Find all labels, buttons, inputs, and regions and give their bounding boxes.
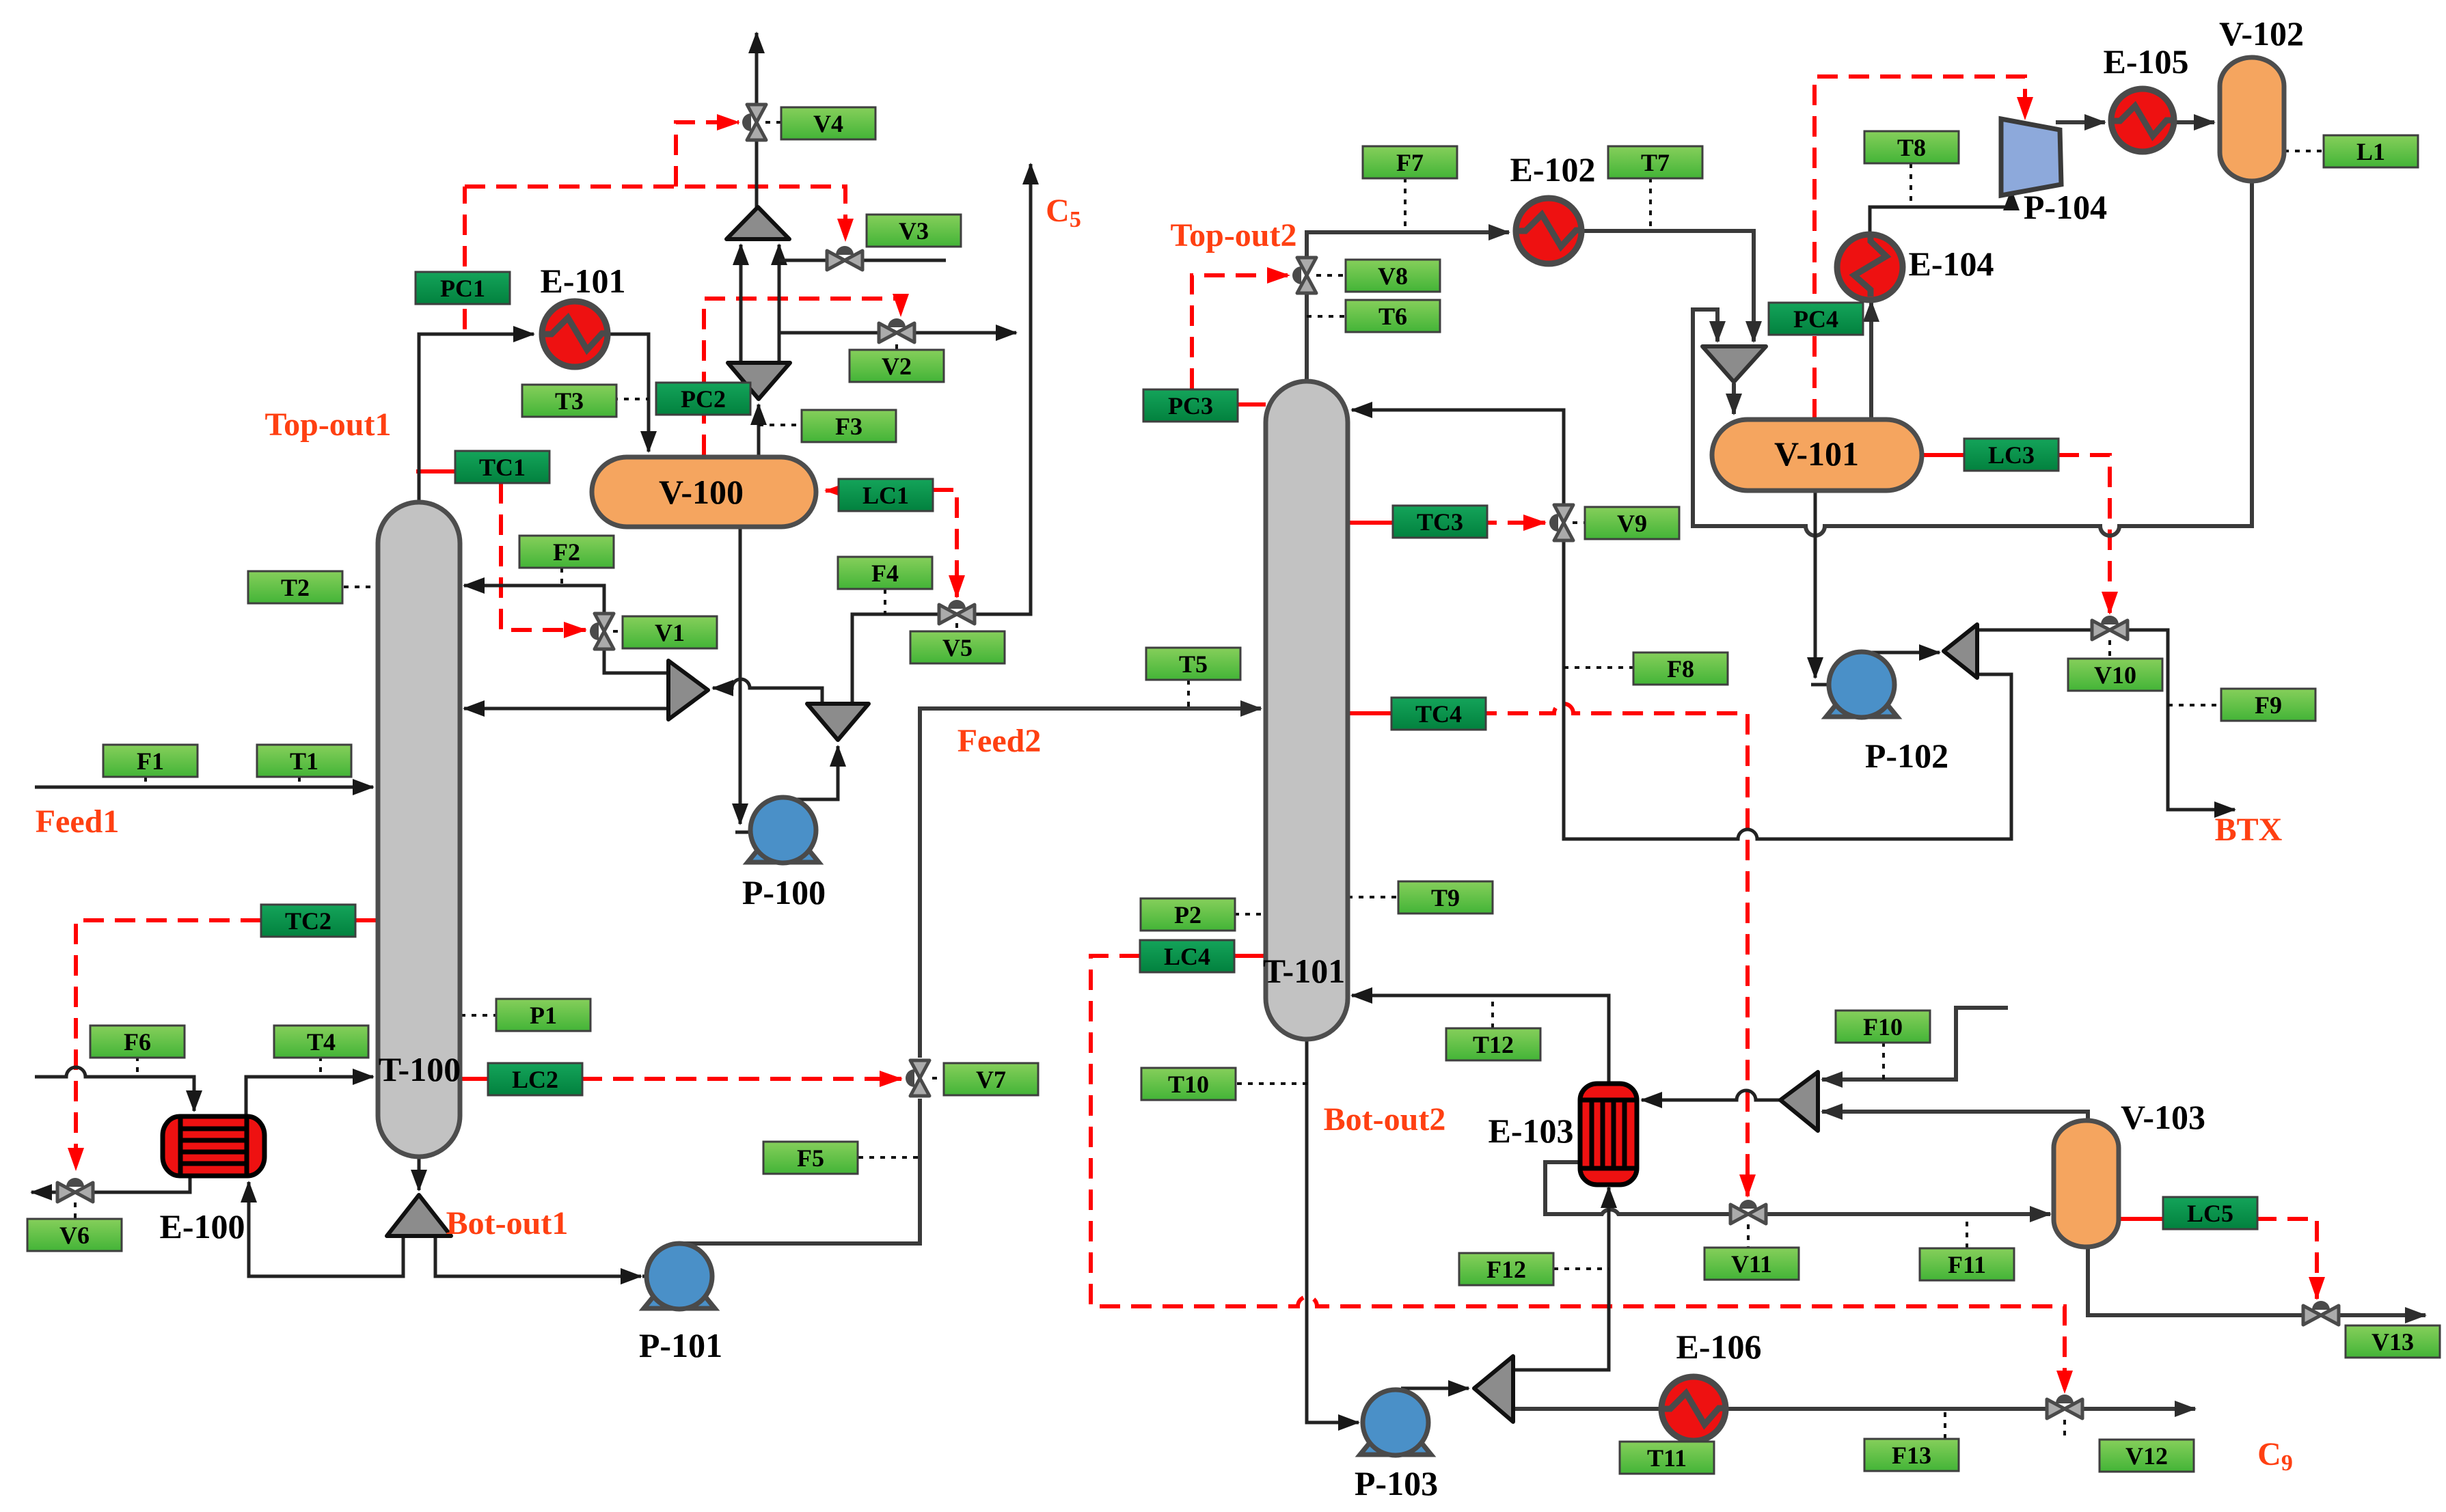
svg-text:V10: V10 <box>2094 661 2136 689</box>
tap T1 <box>298 777 301 787</box>
valve V5 <box>939 600 975 624</box>
box F13 <box>1864 1439 1959 1471</box>
svg-text:PC3: PC3 <box>1168 392 1213 420</box>
wire F10 makeup feed <box>1822 1008 2008 1080</box>
pump P-100 <box>748 797 819 863</box>
svg-text:V9: V9 <box>1617 510 1647 537</box>
box LC2 <box>488 1063 582 1095</box>
wire bottoms splitter to E-100 <box>249 1182 403 1276</box>
tap T2 <box>333 586 378 588</box>
box V5 <box>910 631 1005 663</box>
box T1 <box>257 745 351 777</box>
wire mixer to V-101 <box>1732 383 1736 414</box>
signal TC4 to V11 <box>1476 704 1748 1196</box>
valve V12 <box>2047 1394 2082 1418</box>
box PC4 <box>1769 303 1863 335</box>
signal LC5 tap <box>2119 1217 2163 1221</box>
box V12 <box>2100 1440 2194 1472</box>
box F2 <box>519 536 614 568</box>
wire P-104 to E-105 <box>2056 120 2105 124</box>
svg-text:E-106: E-106 <box>1676 1328 1762 1366</box>
tap F6 <box>136 1056 139 1077</box>
box TC2 <box>261 905 355 937</box>
svg-text:F5: F5 <box>797 1144 824 1172</box>
box V2 <box>850 350 944 382</box>
wire P-103 discharge <box>1401 1387 1469 1390</box>
svg-text:T3: T3 <box>555 387 584 415</box>
svg-text:E-101: E-101 <box>541 262 626 300</box>
svg-text:P2: P2 <box>1174 901 1201 929</box>
svg-text:LC1: LC1 <box>862 482 909 509</box>
svg-text:P-103: P-103 <box>1355 1464 1438 1502</box>
signal LC2 to V7 <box>582 1077 901 1081</box>
wire reboiler feed to E-103 <box>1513 1187 1609 1370</box>
svg-text:Feed1: Feed1 <box>36 803 120 840</box>
svg-text:TC3: TC3 <box>1417 508 1463 536</box>
wire steam feed to E-100 <box>35 1067 194 1111</box>
junction big triangle above V-100 <box>726 207 789 239</box>
junction splitter below big triangle <box>728 363 790 399</box>
tap V8 <box>1316 274 1346 277</box>
svg-text:T5: T5 <box>1179 650 1208 678</box>
box F12 <box>1459 1253 1553 1285</box>
wire E-103 outlet to V11 <box>1545 1162 1730 1214</box>
tap P2 <box>1234 913 1266 916</box>
svg-text:F4: F4 <box>871 560 899 587</box>
tap F8 <box>1564 666 1633 669</box>
signal PC3 tap <box>1237 402 1266 407</box>
wire P-102 suction tick <box>1811 683 1863 687</box>
vessel V-100 <box>592 457 816 527</box>
svg-text:V11: V11 <box>1731 1250 1772 1278</box>
svg-text:LC4: LC4 <box>1164 943 1210 970</box>
svg-text:E-100: E-100 <box>160 1207 245 1246</box>
wire V12 to C9 product <box>2084 1407 2195 1411</box>
box T3 <box>522 385 616 417</box>
box P2 <box>1141 898 1235 931</box>
tap T10 <box>1226 1082 1307 1085</box>
svg-text:T-101: T-101 <box>1263 952 1345 990</box>
wire V-103 overhead recycle <box>1822 1112 2088 1122</box>
vessel V-103 <box>2054 1121 2119 1247</box>
wire E-105 to V-102 <box>2173 120 2214 124</box>
svg-text:F7: F7 <box>1396 149 1424 176</box>
wire Feed2 riser and feed to T-101 <box>920 709 1261 1058</box>
wire Top-out1 column to E-101 <box>419 334 534 504</box>
wire V-101 vapor to E-104 <box>1869 301 1873 420</box>
box F3 <box>802 410 896 442</box>
svg-text:V-101: V-101 <box>1774 435 1859 473</box>
box LC5 <box>2163 1197 2257 1229</box>
valve V10 <box>2092 616 2128 640</box>
svg-text:V-103: V-103 <box>2121 1098 2205 1136</box>
box V10 <box>2068 659 2162 691</box>
box LC3 <box>1964 439 2058 471</box>
column T-100 <box>378 502 460 1157</box>
wire E-101 to V-100 <box>608 334 649 452</box>
wire splitter left leg up to big triangle <box>739 245 743 363</box>
wire E-103 vapor return to T-101 <box>1352 995 1609 1084</box>
svg-text:T11: T11 <box>1647 1444 1687 1472</box>
signal TC2 to V6 <box>76 920 261 1170</box>
wire E-102 to mixer <box>1581 231 1754 342</box>
junction splitter at P-102 <box>1944 624 1977 678</box>
svg-text:V8: V8 <box>1378 262 1408 290</box>
column T-101 <box>1266 381 1348 1039</box>
box T5 <box>1146 648 1240 680</box>
wire E-106 to V12 <box>1724 1407 2046 1411</box>
valve V9 <box>1549 505 1573 540</box>
wire V1 to mixer <box>604 648 668 673</box>
svg-text:LC2: LC2 <box>512 1066 558 1093</box>
tap T9 <box>1348 896 1398 898</box>
signal LC4 to V12 <box>1091 956 2065 1392</box>
svg-text:F13: F13 <box>1892 1442 1931 1469</box>
wire vent through V4 to flare <box>755 33 759 208</box>
box T10 <box>1141 1068 1236 1100</box>
box TC4 <box>1391 698 1486 730</box>
box V3 <box>867 215 961 247</box>
valve V7 <box>906 1060 929 1096</box>
box F8 <box>1633 652 1728 685</box>
box V4 <box>781 107 875 139</box>
box PC2 <box>656 383 750 415</box>
signal LC4 tap <box>1234 954 1266 958</box>
pump P-103 <box>1360 1390 1431 1455</box>
box T6 <box>1346 300 1440 332</box>
signal LC5 to V13 <box>2256 1219 2317 1299</box>
valve V3 <box>827 246 862 270</box>
wire splitter recycle loop down <box>1352 410 2011 839</box>
tap T3 <box>613 398 649 400</box>
svg-text:V13: V13 <box>2372 1328 2414 1356</box>
svg-text:F2: F2 <box>553 538 580 566</box>
wire V10 to BTX product <box>2128 630 2235 810</box>
box F11 <box>1920 1248 2014 1280</box>
tap T5 <box>1187 680 1190 709</box>
junction splitter above P-100 <box>807 704 869 740</box>
svg-text:Top-out2: Top-out2 <box>1171 217 1297 253</box>
svg-text:Feed2: Feed2 <box>957 723 1042 759</box>
svg-text:T9: T9 <box>1431 884 1460 911</box>
signal TC2 tap <box>346 918 378 922</box>
svg-text:E-104: E-104 <box>1909 245 1994 283</box>
svg-text:P-102: P-102 <box>1865 737 1948 775</box>
box V7 <box>944 1063 1038 1095</box>
junction mixer right-pointing at reflux <box>668 661 708 719</box>
svg-text:V7: V7 <box>976 1066 1006 1093</box>
wire P-100 suction tick <box>735 831 785 834</box>
svg-text:LC3: LC3 <box>1988 441 2035 469</box>
box V13 <box>2346 1325 2440 1358</box>
wire V-103 bottoms to V13 <box>2088 1247 2302 1315</box>
svg-text:L1: L1 <box>2356 138 2385 165</box>
svg-text:F6: F6 <box>124 1028 151 1056</box>
wire T-101 bottoms to P-103 <box>1307 1039 1359 1422</box>
vessel V-101 <box>1712 420 1922 491</box>
box F10 <box>1836 1011 1930 1043</box>
svg-text:V5: V5 <box>942 634 973 661</box>
box V6 <box>27 1219 122 1251</box>
svg-text:F8: F8 <box>1667 655 1694 683</box>
tap V10 <box>2108 640 2111 659</box>
tap V12 <box>2063 1420 2066 1440</box>
svg-text:F11: F11 <box>1948 1251 1986 1278</box>
tap V4 <box>765 121 781 124</box>
signal PC3 to V8 <box>1192 275 1289 389</box>
svg-text:V-102: V-102 <box>2219 14 2304 53</box>
junction Bot-out1 splitter <box>387 1195 451 1236</box>
signal PC1 branch to V4 <box>676 122 739 187</box>
wire mixer to column <box>464 707 670 711</box>
wire P-103 suction tick <box>1361 1421 1397 1425</box>
svg-text:PC2: PC2 <box>681 385 726 413</box>
wire V-100 bottoms to P-100 <box>739 527 742 824</box>
heat exchanger E-102 <box>1516 198 1581 264</box>
wire Top-out2 to E-102 <box>1307 232 1509 383</box>
svg-text:E-103: E-103 <box>1489 1112 1574 1150</box>
box PC3 <box>1143 389 1238 422</box>
signal LC1 tap arrow <box>826 489 842 493</box>
signal TC3 tap <box>1348 521 1393 525</box>
signal LC3 tap <box>1922 453 1964 457</box>
svg-text:P-100: P-100 <box>742 873 826 911</box>
tap T4 <box>319 1056 322 1077</box>
signal PC4 tap and to P-104 <box>1815 77 2025 420</box>
svg-text:V-100: V-100 <box>659 473 744 511</box>
tap F11 <box>1966 1219 1968 1248</box>
box P1 <box>496 999 590 1031</box>
signal LC3 to V10 <box>2058 455 2110 614</box>
svg-text:E-102: E-102 <box>1510 150 1596 189</box>
wire V2 vent line <box>779 331 1016 335</box>
wire V-102 bottoms recycle <box>1693 181 2252 536</box>
wire C9 line through E-106 <box>1513 1407 1663 1411</box>
heat exchanger E-101 <box>542 301 608 367</box>
tap T8 <box>1910 163 1912 207</box>
svg-text:LC5: LC5 <box>2187 1200 2233 1227</box>
wire mixer to E-103 <box>1642 1090 1780 1100</box>
wire V11 to V-103 <box>1766 1212 2050 1216</box>
compressor P-104 <box>2001 119 2061 195</box>
junction splitter at P-103 <box>1474 1356 1513 1422</box>
svg-text:F10: F10 <box>1863 1013 1903 1041</box>
svg-text:PC4: PC4 <box>1793 305 1838 333</box>
tap F13 <box>1944 1409 1946 1439</box>
box T12 <box>1446 1028 1540 1060</box>
wire V3 bypass line <box>779 259 946 262</box>
wire column bottoms down <box>418 1158 421 1190</box>
tap V5 <box>955 623 958 631</box>
svg-text:E-105: E-105 <box>2104 42 2189 81</box>
box F9 <box>2221 689 2315 721</box>
svg-text:T-100: T-100 <box>379 1050 461 1088</box>
valve V2 <box>879 318 914 342</box>
signal LC1 to V5 <box>933 490 957 597</box>
svg-text:F3: F3 <box>835 413 862 440</box>
svg-text:T1: T1 <box>290 747 318 775</box>
svg-text:TC2: TC2 <box>285 907 331 935</box>
tap V2 <box>895 344 898 349</box>
heat exchanger E-106 <box>1661 1377 1726 1441</box>
tap V11 <box>1747 1224 1750 1248</box>
heat exchanger E-104 <box>1837 234 1903 300</box>
box TC1 <box>455 451 549 483</box>
box T8 <box>1864 131 1959 163</box>
valve V11 <box>1730 1200 1766 1224</box>
box T11 <box>1620 1442 1714 1474</box>
box TC3 <box>1393 506 1487 538</box>
tap V9 <box>1573 521 1585 524</box>
svg-text:T8: T8 <box>1897 134 1926 161</box>
signal PC1 to V3 <box>465 187 845 240</box>
reboiler E-100 <box>163 1116 264 1176</box>
tap T7 <box>1649 178 1652 231</box>
svg-text:T7: T7 <box>1641 149 1670 176</box>
tap F5 <box>858 1156 920 1159</box>
tap P1 <box>461 1014 496 1017</box>
heat exchanger E-105 <box>2111 89 2174 152</box>
signal PC1 tap to overhead line <box>463 187 467 329</box>
box F5 <box>763 1142 858 1174</box>
svg-text:TC1: TC1 <box>479 454 526 481</box>
svg-text:T10: T10 <box>1168 1071 1209 1098</box>
box F7 <box>1363 146 1457 178</box>
tap V6 <box>74 1202 77 1219</box>
box V11 <box>1704 1248 1799 1280</box>
box V8 <box>1346 260 1440 292</box>
valve V4 <box>742 105 766 140</box>
wire V-100 vapor riser <box>757 404 761 458</box>
tap V1 <box>613 630 623 633</box>
svg-text:BTX: BTX <box>2215 812 2283 848</box>
box PC1 <box>416 272 510 304</box>
wire splitter to V10 <box>1977 629 2092 632</box>
tap F1 <box>144 777 147 787</box>
svg-text:V4: V4 <box>813 110 843 137</box>
svg-text:P1: P1 <box>530 1002 557 1029</box>
signal TC1 tap <box>416 469 455 473</box>
svg-text:Bot-out2: Bot-out2 <box>1324 1101 1446 1138</box>
vessel V-102 <box>2220 57 2284 181</box>
svg-text:V6: V6 <box>59 1222 90 1249</box>
wire P-101 discharge to V7 <box>683 1099 920 1243</box>
valve V13 <box>2303 1301 2339 1325</box>
svg-text:TC4: TC4 <box>1415 700 1462 728</box>
box T4 <box>274 1026 368 1058</box>
tap F10 <box>1882 1042 1885 1080</box>
svg-text:Top-out1: Top-out1 <box>265 407 392 443</box>
tap F2 <box>560 568 563 586</box>
signal TC1 to V1 <box>501 483 586 630</box>
junction mixer at E-103 <box>1780 1072 1818 1131</box>
wire bottoms splitter to P-101 <box>435 1236 641 1276</box>
svg-text:PC1: PC1 <box>440 275 485 302</box>
wire E-104 to P-104 <box>1870 190 2011 232</box>
signal TC4 tap <box>1348 711 1391 715</box>
valve V1 <box>590 614 614 649</box>
svg-text:Bot-out1: Bot-out1 <box>446 1205 569 1241</box>
wire V13 outlet <box>2340 1313 2425 1317</box>
svg-text:V1: V1 <box>655 619 685 646</box>
wire reflux into column top <box>464 586 604 614</box>
tap F4 <box>884 589 886 614</box>
svg-text:V3: V3 <box>899 217 929 245</box>
svg-text:T4: T4 <box>307 1028 336 1056</box>
box F1 <box>103 745 198 777</box>
box T9 <box>1398 881 1493 913</box>
svg-text:P-101: P-101 <box>639 1326 722 1364</box>
svg-text:F12: F12 <box>1486 1256 1526 1283</box>
valve V6 <box>57 1178 93 1202</box>
box F6 <box>90 1026 185 1058</box>
svg-text:F1: F1 <box>137 747 164 775</box>
wire V5 to C5 product <box>974 164 1031 614</box>
box T7 <box>1608 146 1702 178</box>
box V1 <box>623 616 717 648</box>
box F4 <box>838 557 932 589</box>
wire Feed1 <box>35 786 373 789</box>
wire E-100 to column reboiler return <box>246 1077 373 1116</box>
svg-text:F9: F9 <box>2255 691 2282 719</box>
tap F12 <box>1553 1267 1609 1270</box>
signal PC2 tap and to V2 <box>704 299 901 455</box>
valve V8 <box>1292 258 1316 293</box>
box V9 <box>1585 507 1679 539</box>
svg-text:T6: T6 <box>1378 303 1407 330</box>
wire splitter right leg up to big triangle <box>778 245 781 363</box>
tap T11 <box>1707 1409 1710 1442</box>
junction mixer above V-101 <box>1702 346 1766 382</box>
wire E-100 condensate out V6 <box>93 1176 190 1192</box>
wire splitter to V5 <box>852 614 940 704</box>
box T2 <box>248 571 342 603</box>
svg-text:T12: T12 <box>1473 1031 1514 1058</box>
tap F7 <box>1404 178 1407 231</box>
svg-text:T2: T2 <box>281 574 310 601</box>
wire P-101 suction tick <box>642 1275 681 1278</box>
svg-text:V2: V2 <box>882 353 912 380</box>
signal LC2 tap <box>461 1077 488 1081</box>
pump P-101 <box>644 1243 715 1309</box>
pump P-102 <box>1826 652 1897 717</box>
tap T12 <box>1491 995 1494 1028</box>
tap F3 <box>759 424 802 426</box>
tap L1 <box>2284 150 2324 152</box>
tap V7 <box>932 1077 944 1080</box>
wire V6 outlet <box>31 1191 57 1194</box>
wire V-101 bottoms to P-102 <box>1814 491 1817 678</box>
signal TC3 to V9 <box>1476 521 1545 525</box>
tap F9 <box>2168 704 2221 706</box>
box LC1 <box>839 479 933 511</box>
svg-text:V12: V12 <box>2125 1442 2168 1470</box>
svg-text:P-104: P-104 <box>2024 188 2107 226</box>
wire splitter to mixer tip <box>713 679 822 704</box>
tap T6 <box>1307 315 1346 318</box>
box LC4 <box>1140 940 1234 972</box>
wire P-102 discharge to splitter <box>1855 651 1940 655</box>
reboiler E-103 <box>1580 1084 1637 1185</box>
wire P-100 discharge <box>783 746 838 799</box>
box L1 <box>2324 135 2418 167</box>
